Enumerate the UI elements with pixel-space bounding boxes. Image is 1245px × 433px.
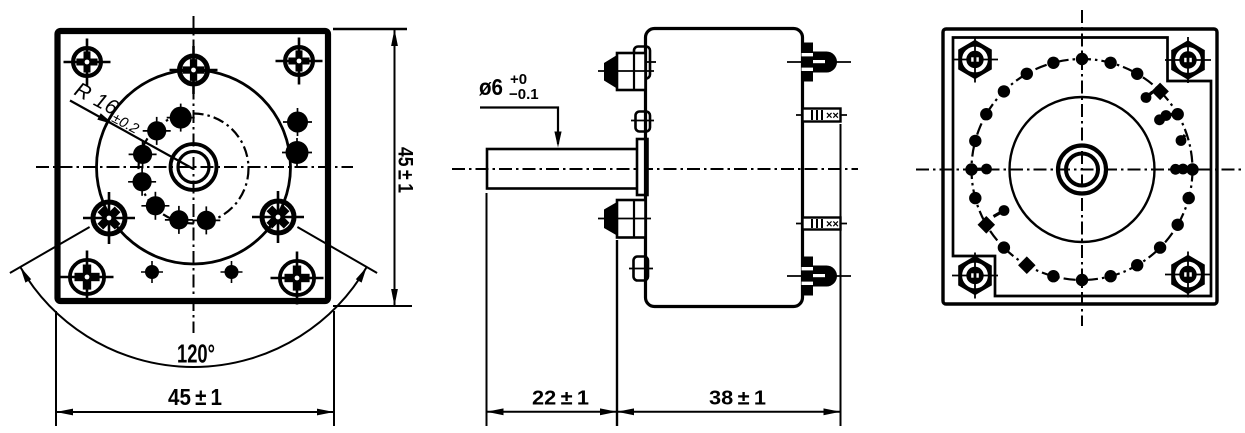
- side view: solder pin upper-right: [796, 109, 847, 123]
- side view: label dia 6 +0/-0.1: [479, 71, 539, 103]
- front view: screw mid-right (on boss circle): [252, 191, 304, 243]
- front view: dimension line 45+-1 vertical: [394, 29, 396, 306]
- side view: hex bolt upper-right: [787, 43, 851, 82]
- side view: leader line for dia 6: [480, 108, 558, 145]
- rear view: horizontal centerline: [916, 169, 1245, 171]
- rear view: shaft bushing inner ring: [1066, 154, 1098, 186]
- front view: mounting screw top-left: [64, 39, 111, 86]
- front view: R16 radius leader line: [70, 101, 194, 170]
- side view: dimension line 22/38: [487, 411, 841, 413]
- front view: contact rivet 2: [143, 117, 171, 145]
- rear view: hex nut top-right: [1165, 37, 1211, 83]
- front view: label 45+-1 right (rotated): [394, 147, 417, 193]
- front view: screw mid-left (on boss circle): [83, 192, 135, 244]
- svg-text:45 ± 1: 45 ± 1: [394, 147, 417, 193]
- side view: extension line shaft end: [486, 193, 488, 426]
- side view: terminal lug upper-left: [634, 47, 656, 79]
- side view: extension line terminal tips: [840, 124, 842, 426]
- rear view: shaft bushing outer ring: [1058, 146, 1106, 194]
- front view: shaft bushing inner ring: [178, 152, 209, 183]
- front view: contact rivet 1 (top): [167, 104, 195, 132]
- svg-text:ø6: ø6: [479, 74, 503, 100]
- svg-text:××: ××: [826, 110, 839, 122]
- front view: R16 contact pitch circle (dash-dot): [139, 114, 249, 224]
- side view: hex bolt lower-right: [787, 257, 851, 296]
- side view: terminal tab left-lower: [629, 257, 653, 281]
- front view: 120 deg dimension arc: [20, 267, 366, 367]
- rear view: hex nut top-left: [952, 37, 998, 83]
- rear view: rivet dots on pitch circle: [965, 53, 1198, 286]
- svg-text:120°: 120°: [177, 339, 215, 369]
- svg-text:22 ± 1: 22 ± 1: [532, 388, 589, 410]
- front view: contact rivet 7: [192, 206, 220, 234]
- side view: solder pin lower-right: [796, 218, 847, 231]
- front view: screw top-center (on boss circle): [170, 46, 218, 94]
- rear view: vertical centerline: [1081, 10, 1083, 326]
- front view: large circle (housing boss): [97, 70, 291, 264]
- front view: contact rivet 4: [128, 168, 156, 196]
- front view: dimension line 45+-1 horizontal: [56, 411, 334, 413]
- front view: vertical centerline: [193, 16, 195, 333]
- front view: extension line bottom-right: [333, 311, 335, 426]
- front view: mounting screw bottom-right: [271, 252, 324, 305]
- rear view: rivet pitch circle (dash-dot): [972, 59, 1193, 280]
- front view: label R16 +-0.2: [68, 78, 147, 138]
- front view: shaft bushing outer ring: [171, 144, 217, 190]
- side view: extension line mounting face: [616, 240, 618, 426]
- front view: R16 leader arrowhead: [97, 113, 114, 124]
- front view: extension line bottom-left: [55, 311, 57, 426]
- side view: mounting bolt lower-left: [598, 200, 651, 238]
- front view: small rivet bottom-left: [141, 261, 163, 283]
- front view: arc arrowhead right: [356, 267, 367, 283]
- front view: square housing outline 45x45: [58, 31, 329, 301]
- front view: extension line top-right: [333, 28, 407, 30]
- side view: housing body: [646, 29, 803, 307]
- front view: mounting screw bottom-left: [61, 251, 114, 304]
- rear view: inner jumper dots: [972, 92, 1193, 217]
- front view: arc arrowhead left: [20, 267, 31, 283]
- side view: mounting bolt upper-left: [598, 53, 654, 90]
- front view: contact rivet 3: [129, 140, 157, 168]
- rear view: outer square cover: [943, 29, 1217, 304]
- front view: 120 deg angle leg right: [297, 227, 377, 273]
- front view: terminal rivet right lower: [282, 138, 312, 167]
- svg-text:45 ± 1: 45 ± 1: [168, 384, 222, 410]
- side view: shaft collar/bushing: [637, 139, 648, 195]
- rear view: inner circle (cover emboss): [1010, 97, 1155, 242]
- rear view: hex nut bottom-right: [1165, 252, 1211, 298]
- front view: small rivet bottom-right: [221, 261, 243, 283]
- rear view: hex nut bottom-left: [952, 253, 998, 299]
- svg-text:−0.1: −0.1: [509, 86, 539, 103]
- svg-text:××: ××: [826, 219, 839, 231]
- front view: mounting screw top-right: [276, 38, 323, 85]
- svg-text:38 ± 1: 38 ± 1: [709, 388, 766, 410]
- rear view: inner contour with corner notches: [953, 38, 1211, 297]
- side view: terminal tab left-upper: [631, 112, 654, 132]
- front view: horizontal centerline: [36, 166, 353, 168]
- front view: 120 deg angle leg left: [10, 227, 90, 273]
- front view: terminal rivet right upper: [283, 108, 312, 136]
- front view: contact rivet 5: [141, 192, 169, 220]
- side view: horizontal centerline: [452, 168, 858, 170]
- front view: extension line bottom-right-side: [333, 305, 412, 307]
- side view: shaft: [487, 149, 639, 189]
- front view: contact rivet 6: [165, 206, 193, 234]
